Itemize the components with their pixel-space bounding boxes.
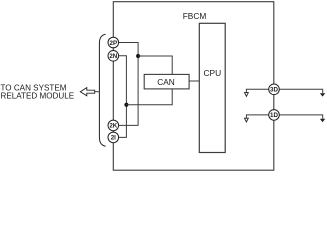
- junction dot on CAN-L: [124, 103, 128, 107]
- svg-text:1D: 1D: [270, 112, 278, 119]
- pin 2P: [108, 37, 119, 48]
- CAN block: [144, 74, 189, 89]
- svg-text:2I: 2I: [111, 135, 116, 142]
- svg-text:2N: 2N: [109, 53, 117, 60]
- CPU block: [199, 23, 225, 152]
- svg-text:CAN: CAN: [157, 77, 175, 87]
- wire 1D right branch: [279, 115, 322, 119]
- wire 2P to 2K (CAN-H bus): [118, 43, 138, 126]
- open arrow down (1D left): [245, 118, 249, 122]
- svg-text:RELATED MODULE: RELATED MODULE: [1, 91, 75, 100]
- svg-text:2K: 2K: [109, 123, 117, 130]
- wire 1D left branch: [246, 115, 268, 118]
- arrow to CAN system: [80, 88, 94, 96]
- pin 2K: [108, 120, 119, 131]
- pin 2I: [108, 132, 119, 143]
- wire CAN-H tap to CAN top: [138, 56, 172, 74]
- pin 3D: [269, 84, 280, 95]
- svg-text:3D: 3D: [270, 87, 278, 94]
- svg-text:2P: 2P: [110, 40, 118, 47]
- junction dot on CAN-H: [136, 54, 140, 58]
- open arrow down (3D left): [245, 93, 249, 97]
- filled arrow down (1D right): [320, 119, 325, 122]
- wire CAN to CPU: [189, 80, 199, 82]
- wire 3D right branch: [279, 89, 322, 93]
- wire 3D left branch: [246, 89, 268, 92]
- wire CAN-L tap to CAN bottom: [126, 89, 172, 105]
- svg-text:FBCM: FBCM: [183, 11, 207, 21]
- filled arrow down (3D right): [320, 93, 325, 96]
- wire 2N to 2I (CAN-L bus): [118, 56, 126, 138]
- svg-text:CPU: CPU: [203, 68, 221, 78]
- pin 2N: [108, 51, 119, 62]
- bracket grouping pins: [99, 34, 105, 146]
- wire bracket to arrow: [95, 91, 100, 93]
- pin 1D: [269, 110, 280, 121]
- FBCM module box U1: [113, 2, 273, 171]
